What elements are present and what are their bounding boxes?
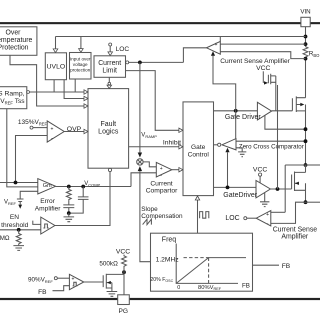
wire zero cross enable from driver2 input	[227, 152, 229, 187]
compensation resistor	[66, 187, 71, 201]
svg-text:VIN: VIN	[300, 9, 310, 16]
bubble current limit to fault	[108, 82, 111, 85]
current limit box	[94, 56, 126, 78]
wire LS source to CSA2 -	[271, 202, 306, 223]
svg-text:+: +	[160, 166, 163, 172]
filled arrow slope comp into summing node bottom	[138, 166, 142, 171]
svg-text:Amplifier: Amplifier	[281, 234, 309, 241]
ground driver2	[260, 192, 269, 206]
wire 135%VREF to OVP comparator +	[33, 127, 47, 129]
wire ramp box to fault logics input 1	[30, 91, 85, 93]
terminal 90%VREF	[54, 277, 57, 280]
svg-text:EN: EN	[10, 214, 19, 221]
filled arrow into CSA1 bottom	[211, 51, 215, 56]
svg-text:FB: FB	[282, 263, 291, 270]
wire input-OVP output drop	[74, 79, 76, 92]
wire LS FET drain to SW	[305, 165, 307, 172]
resistor 500k	[122, 255, 127, 268]
svg-text:Compensation: Compensation	[141, 213, 183, 220]
terminal LOC (bottom)	[225, 215, 246, 222]
svg-text:threshold: threshold	[1, 222, 28, 229]
ground zero cross - input	[236, 148, 246, 157]
wire VIN rail to UVLO/OVP tops	[56, 36, 306, 38]
svg-text:Inhibit: Inhibit	[163, 140, 181, 147]
op-amp CSA1 current sense amplifier (high side)	[207, 41, 221, 55]
oscillator frequency box	[151, 233, 253, 291]
wire FB to oscillator	[253, 264, 280, 266]
wire current limit to gate control route	[126, 71, 179, 131]
svg-text:S Ramp,: S Ramp,	[0, 90, 25, 97]
wire V_RAMP horizontal from current limit bubble	[129, 61, 184, 63]
svg-text:GateDriver: GateDriver	[223, 192, 258, 199]
svg-text:Temperature: Temperature	[0, 37, 33, 44]
wire gate control to high side driver	[214, 110, 258, 112]
UVLO box U2	[45, 53, 66, 80]
terminal LOC (top)	[109, 43, 130, 53]
svg-text:UVLO: UVLO	[47, 64, 66, 71]
node dot VIN-B	[304, 42, 308, 46]
wire drop into input OVP box top	[80, 37, 82, 49]
pin PG	[118, 295, 130, 315]
svg-text:FB: FB	[38, 289, 47, 296]
filled arrow zero cross enable	[225, 148, 229, 153]
bubble zero cross output	[218, 143, 221, 146]
node dot LS gate	[276, 187, 280, 191]
op-amp current comparator	[156, 162, 172, 178]
wire PG comparator output to PG FET gate	[84, 281, 103, 283]
label current sense amplifier (bottom)	[273, 227, 318, 241]
wire CSA2 + input	[271, 211, 285, 213]
op-amp CSA2 current sense amplifier (low side)	[256, 211, 271, 228]
wire SW branch to CSA2 +	[285, 165, 305, 212]
wire OVP output to fault input 4	[64, 131, 84, 133]
resistor R_BO	[303, 47, 308, 58]
transistor PG MOSFET	[103, 274, 124, 292]
wire LS source to right edge	[306, 201, 320, 203]
node dot FB branch	[14, 181, 18, 185]
op-amp gate driver low side	[256, 181, 270, 198]
open arrow current-limit route into gate control	[179, 128, 183, 132]
resistor 1 Mohm	[16, 230, 21, 246]
svg-text:PG: PG	[119, 308, 129, 315]
svg-text:500kΩ: 500kΩ	[99, 261, 118, 268]
svg-text:Limit: Limit	[102, 68, 117, 75]
wire soft start from ramp box to error amp	[7, 109, 38, 187]
svg-text:Input over: Input over	[70, 56, 91, 61]
wire CSA1 enable route	[213, 56, 236, 111]
filled arrow into summing node top	[138, 153, 142, 158]
gate control box	[183, 102, 214, 196]
wire gate control to low side driver	[214, 186, 257, 188]
svg-text:VREF Tss: VREF Tss	[0, 98, 25, 105]
freq graph dashed vertical	[208, 258, 210, 284]
wire CSA1 input upper from VIN node	[220, 43, 305, 45]
freq graph y axis	[176, 244, 238, 284]
open arrow inhibit into gate control	[179, 145, 183, 149]
svg-text:0: 0	[177, 285, 180, 291]
open arrow comparator into gate control	[179, 168, 183, 172]
svg-text:Amplifier: Amplifier	[35, 205, 61, 212]
open arrow fault input 2	[84, 96, 88, 100]
wire slope compensation from oscillator	[140, 171, 151, 262]
svg-text:1 MΩ: 1 MΩ	[0, 235, 10, 242]
svg-text:VCOMP: VCOMP	[84, 181, 100, 187]
svg-text:voltage: voltage	[73, 62, 88, 67]
node dot EN divider	[17, 228, 21, 232]
label slope compensation	[141, 206, 183, 220]
wire V_RAMP vertical down to summing node	[139, 62, 141, 152]
wire buffer fet to driver output	[275, 76, 277, 111]
fault logics box	[88, 89, 129, 169]
IC top boundary rail	[0, 22, 320, 24]
svg-text:protection: protection	[70, 68, 91, 73]
svg-text:Current: Current	[98, 60, 121, 67]
wire current comparator output to gate control	[172, 169, 179, 171]
svg-text:Gate Driver: Gate Driver	[225, 114, 261, 121]
node dot comp branch 1	[67, 185, 71, 189]
freq graph ramp diagonal	[176, 258, 246, 284]
open arrow oscillator into gate control bottom	[195, 196, 199, 200]
op-amp zero cross comparator	[222, 139, 236, 150]
svg-text:Current: Current	[150, 181, 172, 188]
wire CSA1 output to V_RAMP net	[183, 48, 206, 63]
transistor LS power MOSFET	[292, 172, 306, 192]
node dot driver2 input	[226, 186, 230, 190]
bubble fault logics bottom	[108, 168, 111, 171]
wire driver1 low rail to SW	[265, 115, 306, 129]
wire CSA2 output to LOC	[247, 217, 256, 219]
wire buffer rail to LS gate node	[277, 85, 279, 189]
svg-text:LOC: LOC	[225, 215, 239, 222]
svg-text:Logics: Logics	[98, 128, 119, 135]
node dot VIN-C	[304, 57, 308, 61]
wire UVLO output drop B to fault input 2	[64, 80, 84, 99]
wire FB from left edge to error amp +	[0, 182, 38, 184]
node dot comp bottom	[67, 211, 71, 215]
wire VCC to buffer fet gate	[262, 71, 264, 83]
wire driver1 output to HS FET gate	[272, 110, 293, 112]
SS ramp Vref Tss box	[0, 87, 27, 109]
svg-text:FB: FB	[242, 283, 250, 290]
node dot comp branch 2	[81, 185, 85, 189]
open arrow into UVLO	[53, 49, 58, 53]
wire zero cross top corner to driver node	[235, 111, 237, 139]
node dot V_RAMP	[138, 61, 142, 65]
open arrow fault input 1	[84, 90, 88, 94]
wire Vref to error amp input	[20, 191, 38, 198]
svg-text:VCC: VCC	[256, 65, 270, 72]
freq graph dashed level	[184, 257, 209, 259]
wire summing node output to current comparator +	[143, 162, 156, 167]
wire driver2 output to LS FET gate	[270, 188, 291, 190]
wire inhibit fault to gate control	[129, 146, 179, 148]
open arrow into fault top	[107, 85, 112, 88]
svg-text:Gm: Gm	[43, 183, 52, 189]
wire zero cross + input from SW	[236, 140, 306, 142]
wire LS FET source/body rail	[305, 183, 307, 202]
node dot VIN-A	[304, 35, 308, 39]
wire UVLO output drop A	[53, 80, 55, 92]
svg-text:Control: Control	[188, 151, 210, 158]
svg-text:Compartor: Compartor	[146, 188, 178, 195]
wire current limit output to fault top	[108, 77, 110, 82]
open arrow into input OVP box	[79, 49, 84, 53]
Vref source symbol	[17, 199, 24, 209]
compensation capacitor C1	[63, 200, 74, 213]
open arrow fault input 4 (OVP)	[84, 129, 88, 133]
label error amplifier	[35, 198, 61, 212]
wire drop into UVLO top	[55, 37, 57, 49]
svg-text:VREF: VREF	[4, 200, 17, 206]
wire SW to right edge	[306, 164, 320, 166]
svg-text:+: +	[51, 127, 54, 133]
compensation capacitor C2	[71, 187, 89, 214]
node dot SW-A	[304, 127, 308, 131]
svg-text:LOC: LOC	[116, 46, 130, 53]
wire EN threshold to comparator -	[0, 229, 41, 231]
svg-text:Protection: Protection	[0, 44, 29, 51]
wire PG node to PG pin	[123, 268, 125, 295]
terminal VCC driver2	[259, 173, 262, 176]
ground PG FET	[107, 292, 118, 297]
wire CSA1 top corner to VIN rail	[219, 37, 221, 42]
svg-text:VCC: VCC	[116, 248, 130, 255]
wire zero cross output to gate control	[214, 144, 218, 146]
transistor HS power MOSFET	[292, 96, 305, 112]
wire 90%VREF to PG comparator +	[57, 277, 69, 279]
clock pulse symbol	[200, 212, 209, 219]
ground compensation	[64, 213, 75, 222]
svg-text:1.2MHz: 1.2MHz	[156, 257, 180, 264]
svg-text:Over: Over	[6, 29, 22, 36]
filled arrow into buffer fet gate	[264, 81, 268, 84]
node dot driver1 input	[234, 109, 238, 113]
open arrow fault input 3	[84, 104, 88, 108]
open arrow into Current Limit top	[108, 52, 113, 56]
svg-text:+: +	[266, 212, 269, 218]
bubble on current limit right edge	[126, 61, 129, 64]
pin VIN	[300, 9, 310, 27]
wire over-temp output to fault input 3	[10, 55, 84, 106]
node dot LS source	[304, 200, 308, 204]
op-amp gate driver high side	[257, 102, 271, 120]
ground EN resistor	[13, 246, 24, 251]
wire FB to PG comparator -	[53, 286, 70, 291]
over temperature protection box	[0, 27, 37, 56]
svg-text:Fault: Fault	[101, 121, 117, 128]
wire HS FET source to SW node	[305, 105, 307, 166]
terminal 135%VREF	[30, 126, 33, 129]
label current compartor	[146, 181, 178, 195]
node dot PG	[122, 270, 126, 274]
wire VCC into driver2	[259, 176, 261, 183]
svg-text:VRAMP: VRAMP	[141, 133, 157, 139]
wire oscillator to gate control	[197, 200, 199, 233]
wire FB sense to OVP comparator -	[16, 136, 48, 183]
input over voltage protection box	[70, 53, 92, 80]
wire EN comparator output to fault logics bottom	[55, 172, 110, 226]
op-amp OVP comparator	[47, 121, 64, 142]
wire CSA1 input lower to below R_BO	[220, 52, 305, 59]
node dot SW-C	[304, 163, 308, 167]
svg-text:Current Sense Amplifier: Current Sense Amplifier	[220, 58, 290, 65]
IC bottom boundary rail	[0, 298, 320, 300]
svg-text:Current Sense: Current Sense	[273, 227, 318, 234]
wire VCOMP route to current comparator -	[131, 173, 156, 187]
op-amp EN comparator	[41, 217, 55, 234]
svg-text:Gate: Gate	[191, 144, 206, 151]
svg-text:Error: Error	[40, 198, 55, 205]
op-amp PG comparator	[69, 274, 83, 289]
wire EN pin stub to comparator +	[33, 221, 41, 225]
bubble on ramp box right edge	[27, 91, 30, 94]
wire error amp output VCOMP	[56, 186, 131, 188]
summing node circle	[137, 159, 143, 165]
sawtooth symbol	[143, 219, 152, 224]
svg-text:Zero Cross Comparator: Zero Cross Comparator	[239, 143, 304, 150]
node dot SW-B	[304, 139, 308, 143]
op-amp error amplifier Gm	[38, 179, 56, 194]
wire VIN vertical to HS FET drain	[305, 27, 307, 98]
transistor buffer fet (driver supply)	[268, 74, 275, 84]
svg-text:+: +	[215, 42, 218, 48]
svg-text:Freq: Freq	[162, 237, 177, 244]
